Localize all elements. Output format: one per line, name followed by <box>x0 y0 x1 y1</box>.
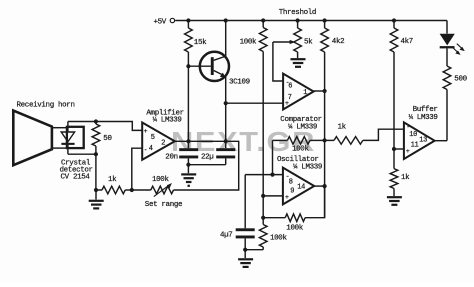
wire up to amplifier inverting input <box>132 148 142 190</box>
wire amplifier non-inverting input <box>96 122 142 131</box>
wire collector from rail <box>225 21 227 57</box>
svg-text:2: 2 <box>161 139 165 147</box>
wire oscillator inverting input <box>245 174 283 176</box>
svg-text:22µ: 22µ <box>201 153 213 161</box>
ground under caps <box>187 165 189 174</box>
svg-text:Receiving horn: Receiving horn <box>17 102 75 110</box>
node inverting input junction <box>130 188 134 192</box>
wire 500 to buffer output <box>446 90 448 141</box>
node capacitor ground junction <box>186 163 190 167</box>
node rail junction at 5k <box>296 18 300 22</box>
wire horn to detector top <box>52 127 67 129</box>
wire capacitor common <box>188 164 225 166</box>
op-amp U1c oscillator <box>283 168 314 205</box>
resistor R10 100k coupling <box>273 139 288 141</box>
svg-text:+: + <box>406 148 410 155</box>
svg-text:4µ7: 4µ7 <box>220 231 232 239</box>
wire buffer output <box>435 140 447 142</box>
capacitor C3 4u7 <box>236 228 255 231</box>
svg-text:5k: 5k <box>304 39 313 47</box>
ground under 5k <box>297 52 299 58</box>
node rail junction at 4k2 <box>323 18 327 22</box>
node buffer bias junction <box>392 147 396 151</box>
node rail junction at 4k7 <box>392 18 396 22</box>
resistor R12 100k divider <box>259 225 267 248</box>
node rail junction at 15k <box>186 18 190 22</box>
svg-text:Buffer: Buffer <box>413 106 438 114</box>
op-amp U1a amplifier <box>142 123 175 160</box>
svg-text:1k: 1k <box>338 123 347 131</box>
wire base lead <box>188 65 210 67</box>
node oscillator output junction <box>323 184 327 188</box>
node feedback junction <box>261 216 265 220</box>
svg-text:¼ LM339: ¼ LM339 <box>409 114 438 122</box>
resistor R2 100k <box>262 21 264 28</box>
node oscillator non-inverting junction <box>261 194 265 198</box>
svg-text:15k: 15k <box>194 39 207 47</box>
potentiometer R3 5k <box>297 21 299 29</box>
node oscillator inverting junction <box>270 173 274 177</box>
svg-text:+5V: +5V <box>154 19 167 27</box>
crystal detector case <box>67 127 84 148</box>
diode D1 crystal detector <box>67 122 69 133</box>
svg-text:1k: 1k <box>108 176 117 184</box>
svg-text:+: + <box>285 194 289 201</box>
svg-text:¼ LM339: ¼ LM339 <box>293 164 322 172</box>
svg-text:5: 5 <box>151 134 155 142</box>
svg-text:13: 13 <box>419 136 427 144</box>
node detector top junction <box>94 119 98 123</box>
receiving horn <box>13 111 52 166</box>
svg-text:4k7: 4k7 <box>401 38 413 46</box>
node rail junction at collector <box>224 18 228 22</box>
svg-text:10: 10 <box>409 131 417 139</box>
wire amplifier output to set range <box>174 141 239 190</box>
svg-text:¼ LM339: ¼ LM339 <box>288 123 317 131</box>
resistor R14 1k bias <box>390 169 398 189</box>
node input ground junction <box>94 188 98 192</box>
wire horn to detector bottom <box>52 147 67 149</box>
+5V terminal <box>170 18 174 22</box>
resistor R13 1k coupling <box>325 139 334 141</box>
svg-text:1: 1 <box>303 89 307 97</box>
svg-text:100k: 100k <box>286 224 303 232</box>
resistor R5 4k7 <box>393 21 395 29</box>
node amp output at emitter line <box>224 139 228 143</box>
wire buffer non-inverting input <box>394 148 404 150</box>
node amp output at base line <box>186 139 190 143</box>
wire +5V supply rail <box>175 20 447 22</box>
op-amp U1d buffer <box>404 122 435 159</box>
resistor R6 500 <box>443 66 451 90</box>
node emitter junction <box>224 101 228 105</box>
ground under buffer bias <box>393 189 395 197</box>
svg-text:11: 11 <box>411 141 419 149</box>
wire oscillator output <box>314 185 324 187</box>
wire rail to LED <box>446 21 448 34</box>
node oscillator ground junction <box>243 248 247 252</box>
svg-text:4k2: 4k2 <box>332 38 344 46</box>
node coupling junction <box>323 138 327 142</box>
svg-text:+: + <box>144 128 148 135</box>
node rail junction at 100k <box>261 18 265 22</box>
wire emitter down to comparator input node <box>225 77 227 142</box>
wire down to input ground node <box>95 154 97 190</box>
node detector bottom junction <box>94 152 98 156</box>
svg-text:-: - <box>406 124 410 131</box>
svg-text:100k: 100k <box>240 39 257 47</box>
wire detector top to amplifier input <box>68 121 96 123</box>
svg-text:100k: 100k <box>270 235 287 243</box>
svg-text:14: 14 <box>297 183 305 191</box>
svg-text:6: 6 <box>288 82 292 90</box>
svg-text:50: 50 <box>103 135 112 143</box>
wire inverting input to timing cap <box>244 175 246 229</box>
op-amp U1b comparator <box>283 74 314 110</box>
svg-text:1k: 1k <box>401 174 410 182</box>
capacitor C2 22u <box>225 141 227 148</box>
svg-text:500: 500 <box>454 76 467 84</box>
svg-text:100k: 100k <box>292 145 309 153</box>
wire LED cathode to 500 <box>446 48 448 66</box>
svg-text:¼ LM339: ¼ LM339 <box>153 117 182 125</box>
resistor R11 100k feedback <box>263 217 285 219</box>
svg-text:4: 4 <box>149 145 153 153</box>
LED D2 <box>440 34 455 46</box>
svg-text:Threshold: Threshold <box>279 9 316 17</box>
svg-text:Set range: Set range <box>145 201 182 209</box>
node base junction <box>186 64 190 68</box>
resistor R7 50 <box>95 122 97 125</box>
resistor R1 15k <box>187 21 189 29</box>
node comparator output junction <box>323 89 327 93</box>
svg-text:-: - <box>144 146 148 153</box>
wire oscillator non-inverting input <box>263 195 283 197</box>
svg-text:3C109: 3C109 <box>229 79 250 87</box>
wire comparator-oscillator output bus <box>324 52 326 218</box>
wire 4k7 down to buffer input <box>393 52 395 169</box>
wire detector bottom <box>68 153 96 155</box>
wire 15k bottom to base node <box>187 52 189 141</box>
svg-text:20n: 20n <box>165 153 177 161</box>
resistor R4 4k2 <box>324 21 326 29</box>
ground under crystal detector <box>95 190 97 200</box>
resistor R8 1k <box>96 189 102 191</box>
wire coupling to oscillator inverting input <box>272 140 274 174</box>
wire comparator output <box>314 90 325 92</box>
svg-text:+: + <box>285 100 289 107</box>
ground under oscillator <box>244 250 246 258</box>
wire 100k down to oscillator divider <box>262 52 264 225</box>
svg-text:100k: 100k <box>152 176 169 184</box>
svg-text:CV 2154: CV 2154 <box>61 174 91 182</box>
potentiometer R9 100k set range <box>132 189 151 191</box>
wire emitter node to comparator non-inverting input <box>226 102 283 104</box>
wire oscillator ground bus <box>245 249 263 251</box>
capacitor C1 20n <box>187 141 189 148</box>
wire 5k wiper to comparator inverting input <box>273 41 291 43</box>
svg-text:9: 9 <box>290 187 294 195</box>
transistor Q1 <box>200 52 229 81</box>
svg-text:8: 8 <box>289 178 293 186</box>
